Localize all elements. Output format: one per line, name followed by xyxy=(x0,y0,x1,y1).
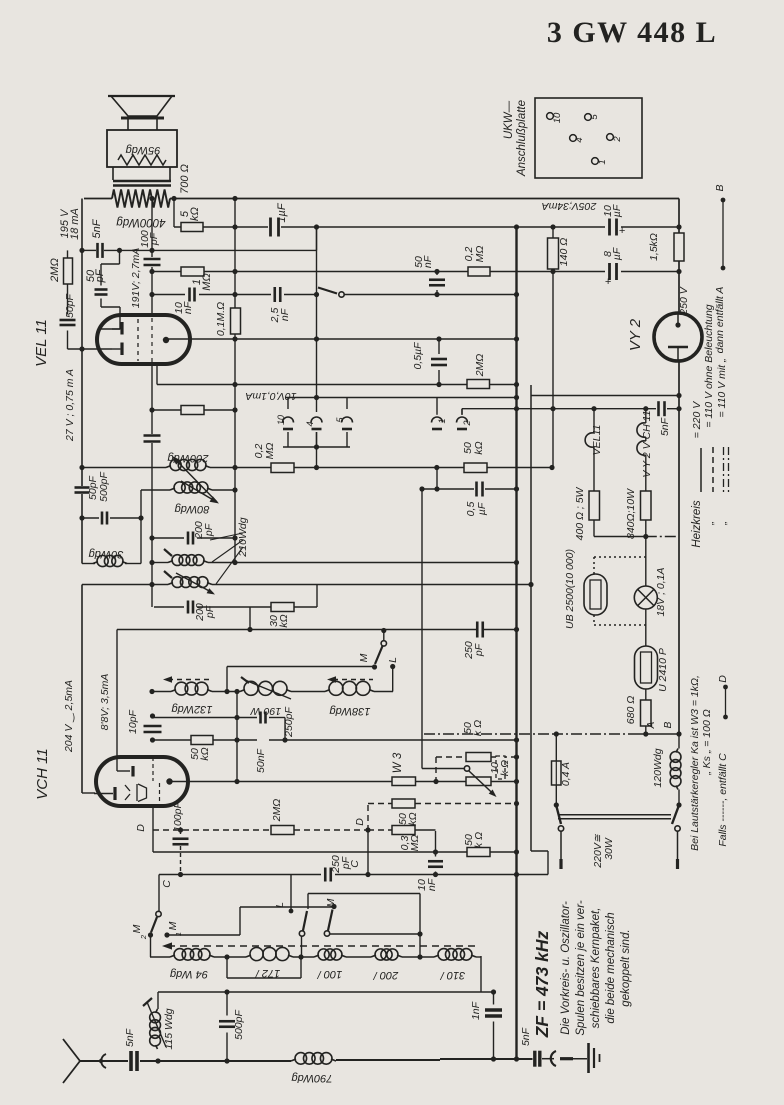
svg-text:µF: µF xyxy=(476,502,488,515)
svg-text:C: C xyxy=(161,880,173,888)
svg-text:100 /: 100 / xyxy=(317,968,342,980)
svg-text:250 V: 250 V xyxy=(678,286,690,315)
svg-text:pF: pF xyxy=(94,268,106,283)
svg-text:VY 2: VY 2 xyxy=(627,318,644,351)
svg-text:„: „ xyxy=(717,521,729,526)
svg-text:= 220 V: = 220 V xyxy=(691,401,703,438)
svg-text:115 Wdg: 115 Wdg xyxy=(163,1008,175,1049)
svg-text:1µF: 1µF xyxy=(276,202,288,222)
svg-text:ZF = 473 kHz: ZF = 473 kHz xyxy=(532,931,552,1039)
svg-text:µF: µF xyxy=(611,204,623,217)
svg-text:50pF: 50pF xyxy=(64,293,76,318)
svg-text:MΩ: MΩ xyxy=(201,273,213,291)
svg-text:4: 4 xyxy=(305,421,315,426)
svg-text:10V,0,1mA: 10V,0,1mA xyxy=(245,390,296,402)
svg-text:M: M xyxy=(325,898,337,907)
svg-text:1nF: 1nF xyxy=(470,1001,482,1020)
svg-text:200Wdg: 200Wdg xyxy=(167,452,210,464)
svg-text:500pF: 500pF xyxy=(98,472,110,502)
svg-text:2: 2 xyxy=(139,934,148,940)
svg-text:Bei Lautstärkeregler Ka ist W: Bei Lautstärkeregler Ka ist W3 = 1kΩ, xyxy=(689,675,701,851)
svg-text:120Wdg: 120Wdg xyxy=(652,748,664,787)
svg-text:50nF: 50nF xyxy=(255,748,267,773)
svg-text:D: D xyxy=(354,818,366,826)
svg-text:310 /: 310 / xyxy=(440,969,465,981)
svg-text:400 Ω ; 5W: 400 Ω ; 5W xyxy=(574,486,586,540)
svg-text:kΩ: kΩ xyxy=(407,812,419,825)
svg-text:190 W: 190 W xyxy=(250,705,281,717)
svg-text:W 3: W 3 xyxy=(392,752,404,773)
svg-text:1: 1 xyxy=(174,932,183,936)
svg-text:+: + xyxy=(605,276,612,288)
svg-text:94 Wdg: 94 Wdg xyxy=(169,968,208,980)
svg-text:30Wdg: 30Wdg xyxy=(88,548,124,560)
svg-text:Falls ------, entfällt C: Falls ------, entfällt C xyxy=(717,753,729,847)
svg-text:pF: pF xyxy=(203,523,215,537)
svg-text:10pF: 10pF xyxy=(127,709,139,734)
svg-text:D: D xyxy=(717,675,729,683)
svg-text:27 V ; 0,75 m A: 27 V ; 0,75 m A xyxy=(64,369,76,442)
svg-text:k Ω: k Ω xyxy=(472,720,484,736)
svg-text:gekoppelt sind.: gekoppelt sind. xyxy=(620,929,632,1006)
svg-text:5nF: 5nF xyxy=(91,218,103,238)
svg-text:VEL11: VEL11 xyxy=(591,425,603,456)
svg-text:= 110 V mit „: = 110 V mit „ xyxy=(716,358,728,417)
svg-text:UB 2500(10 000): UB 2500(10 000) xyxy=(564,549,576,629)
svg-text:VCH 11: VCH 11 xyxy=(34,748,51,799)
svg-text:VEL 11: VEL 11 xyxy=(33,319,50,367)
svg-text:Spulen besitzen je ein ver-: Spulen besitzen je ein ver- xyxy=(575,900,587,1035)
svg-text:2: 2 xyxy=(612,136,623,143)
svg-text:2: 2 xyxy=(462,420,472,426)
svg-text:kΩ: kΩ xyxy=(473,441,485,454)
svg-text:die beide mechanisch: die beide mechanisch xyxy=(605,912,617,1023)
svg-text:MΩ: MΩ xyxy=(474,246,486,263)
svg-text:10: 10 xyxy=(552,112,563,123)
svg-text:Heizkreis: Heizkreis xyxy=(691,500,703,548)
svg-text:MΩ: MΩ xyxy=(264,443,276,460)
svg-text:790Wdg: 790Wdg xyxy=(291,1072,333,1084)
svg-text:„: „ xyxy=(704,521,716,526)
svg-text:840Ω;10W: 840Ω;10W xyxy=(625,488,637,539)
svg-text:95Wdg: 95Wdg xyxy=(125,144,161,156)
svg-text:µF: µF xyxy=(611,247,623,260)
svg-text:U 2410 P: U 2410 P xyxy=(657,648,669,692)
svg-text:80Wdg: 80Wdg xyxy=(174,503,210,515)
svg-text:132Wdg: 132Wdg xyxy=(171,703,213,715)
svg-text:5nF: 5nF xyxy=(520,1027,532,1046)
svg-text:pF: pF xyxy=(148,232,160,246)
svg-text:kΩ: kΩ xyxy=(189,207,201,221)
svg-text:191V; 2,7mA: 191V; 2,7mA xyxy=(130,248,142,309)
svg-text:2MΩ: 2MΩ xyxy=(474,354,486,378)
svg-text:1: 1 xyxy=(597,159,608,164)
svg-text:0,5µF: 0,5µF xyxy=(412,342,424,370)
svg-text:+: + xyxy=(619,225,626,237)
svg-text:nF: nF xyxy=(182,301,194,314)
svg-text:B: B xyxy=(714,184,726,191)
svg-text:0,4 A: 0,4 A xyxy=(560,762,572,786)
svg-text:140 Ω: 140 Ω xyxy=(558,238,570,266)
svg-text:k Ω: k Ω xyxy=(499,760,511,776)
svg-text:UKW—: UKW— xyxy=(503,100,515,139)
svg-text:10: 10 xyxy=(276,415,286,425)
svg-text:D: D xyxy=(135,824,147,832)
svg-text:5: 5 xyxy=(589,114,600,120)
svg-text:172 /: 172 / xyxy=(255,967,280,979)
svg-text:pF: pF xyxy=(473,643,485,657)
svg-text:18V ; 0,1A: 18V ; 0,1A xyxy=(655,567,667,616)
svg-text:pF: pF xyxy=(340,856,352,870)
svg-text:nF: nF xyxy=(279,308,291,321)
svg-text:700 Ω: 700 Ω xyxy=(179,164,191,194)
svg-text:kΩ: kΩ xyxy=(199,747,211,760)
svg-text:schiebbares Kernpaket,: schiebbares Kernpaket, xyxy=(590,908,602,1029)
svg-text:138Wdg: 138Wdg xyxy=(329,705,371,717)
svg-text:100pF: 100pF xyxy=(172,802,184,832)
svg-text:„ Ks „ = 100 Ω: „ Ks „ = 100 Ω xyxy=(701,709,713,775)
svg-text:8'8V; 3,5mA: 8'8V; 3,5mA xyxy=(99,674,111,731)
svg-text:3 GW 448 L: 3 GW 448 L xyxy=(547,16,717,49)
svg-text:250pF: 250pF xyxy=(283,707,295,738)
svg-text:500pF: 500pF xyxy=(233,1010,245,1040)
svg-text:210Wdg: 210Wdg xyxy=(237,517,249,557)
svg-text:k Ω: k Ω xyxy=(473,832,485,848)
svg-text:Anschlußplatte: Anschlußplatte xyxy=(516,100,528,177)
svg-text:MΩ: MΩ xyxy=(409,835,421,852)
svg-text:200 /: 200 / xyxy=(373,969,399,981)
svg-text:4000Wdg: 4000Wdg xyxy=(116,216,166,228)
svg-text:5nF: 5nF xyxy=(659,417,671,436)
svg-text:4: 4 xyxy=(574,137,585,142)
svg-text:nF: nF xyxy=(422,255,434,268)
svg-text:L: L xyxy=(387,657,399,663)
svg-text:204 V ‿ 2,5mA: 204 V ‿ 2,5mA xyxy=(63,680,75,753)
svg-text:0,1M.Ω: 0,1M.Ω xyxy=(215,302,227,336)
svg-text:M: M xyxy=(358,653,370,662)
svg-text:30W: 30W xyxy=(603,837,615,860)
svg-text:kΩ: kΩ xyxy=(278,614,290,627)
svg-text:M: M xyxy=(131,924,143,933)
svg-text:nF: nF xyxy=(426,878,438,891)
svg-text:18 mA: 18 mA xyxy=(69,208,81,240)
svg-text:1: 1 xyxy=(437,418,447,423)
svg-text:pF: pF xyxy=(204,605,216,619)
svg-text:M: M xyxy=(167,921,179,930)
svg-text:2MΩ: 2MΩ xyxy=(49,258,61,283)
svg-text:205V;34mA: 205V;34mA xyxy=(542,200,598,212)
svg-text:B: B xyxy=(663,721,674,728)
svg-text:dann entfällt A: dann entfällt A xyxy=(714,287,726,354)
svg-text:1,5kΩ: 1,5kΩ xyxy=(648,233,660,261)
svg-text:Die Vorkreis- u. Oszillator-: Die Vorkreis- u. Oszillator- xyxy=(560,901,572,1035)
svg-text:A: A xyxy=(646,721,657,729)
svg-text:5nF: 5nF xyxy=(124,1028,136,1047)
svg-text:680 Ω: 680 Ω xyxy=(625,696,637,724)
svg-text:2MΩ: 2MΩ xyxy=(271,799,283,823)
svg-text:V Y 2 V CH 11: V Y 2 V CH 11 xyxy=(641,410,653,477)
svg-text:L: L xyxy=(274,902,286,908)
